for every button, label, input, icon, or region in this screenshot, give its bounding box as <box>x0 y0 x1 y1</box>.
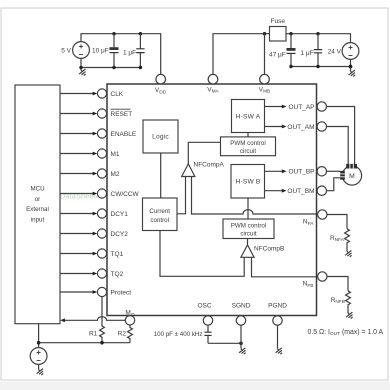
svg-text:PGND: PGND <box>268 302 287 309</box>
comparator NFCompB <box>241 245 254 257</box>
svg-text:circuit: circuit <box>240 148 256 155</box>
pin NFA <box>318 210 327 219</box>
pin TQ2 <box>97 269 106 278</box>
svg-text:PWM control: PWM control <box>231 222 266 229</box>
node junction source bottom <box>79 66 82 69</box>
svg-text:ENABLE: ENABLE <box>111 131 137 138</box>
wire MCU to TQ1 <box>60 253 93 255</box>
wire MCU to RESET <box>60 113 93 115</box>
voltage source 24V <box>342 43 359 60</box>
pin DCY2 <box>97 229 106 238</box>
svg-text:OUT_AP: OUT_AP <box>288 104 314 111</box>
svg-text:10 μF: 10 μF <box>92 47 109 54</box>
wire MCU to Protect <box>60 291 93 293</box>
wire PGND to ground <box>277 325 279 349</box>
capacitor OSC (100pF) <box>204 325 211 343</box>
svg-text:M2: M2 <box>111 171 120 178</box>
svg-text:DCY2: DCY2 <box>111 231 129 238</box>
pin OUT_AM <box>317 122 326 131</box>
wire MO to MCU (with hop) <box>63 317 125 321</box>
svg-text:NFCompA: NFCompA <box>194 161 225 168</box>
svg-text:NFCompB: NFCompB <box>254 245 284 252</box>
svg-text:Protect: Protect <box>111 289 132 296</box>
wire OUT_AP to motor <box>327 107 355 165</box>
svg-text:M: M <box>349 173 355 180</box>
wire NFA to RNFA <box>327 215 347 229</box>
wire MCU to M2 <box>60 173 93 175</box>
resistor RNFB <box>346 291 351 313</box>
pin CLK <box>97 89 106 98</box>
wire H-SW B to PWM B <box>247 198 249 219</box>
svg-text:External: External <box>26 206 49 213</box>
svg-text:CW/CCW: CW/CCW <box>111 191 140 198</box>
fuse F1 <box>270 27 287 42</box>
pin VDD <box>156 74 166 84</box>
node junction SGND <box>239 342 243 346</box>
block H-SW B <box>231 165 265 199</box>
wire MCU to DCY2 <box>60 233 93 235</box>
wire Current control to NFCompA input <box>177 177 186 214</box>
node junction 47uF top <box>289 32 292 35</box>
pin OSC <box>203 316 212 325</box>
wire ground rail bottom-left <box>39 342 130 344</box>
svg-text:control: control <box>150 217 169 224</box>
ground (signal source) <box>35 367 45 377</box>
svg-text:Fuse: Fuse <box>271 18 286 25</box>
comparator NFCompA <box>182 164 195 177</box>
voltage source 5V <box>73 42 90 59</box>
svg-text:M1: M1 <box>111 151 120 158</box>
ground (SGND) <box>238 346 248 356</box>
wire MCU to TQ2 <box>60 273 93 275</box>
wire H-SW A to PWM A <box>247 133 249 137</box>
svg-text:OUT_BM: OUT_BM <box>287 188 314 195</box>
svg-text:24 V: 24 V <box>328 48 342 55</box>
wire NFB to NFCompB input <box>252 257 317 277</box>
node junction source top <box>37 341 41 345</box>
svg-text:CLK: CLK <box>111 91 124 98</box>
wire 5V top rail to VDD <box>81 34 161 75</box>
wire NFB to RNFB <box>327 277 348 291</box>
signal source (MCU supply) <box>30 348 47 365</box>
wire MCU to ENABLE <box>60 133 93 135</box>
node junction 10uF top <box>112 32 115 35</box>
pin RESET <box>97 109 106 118</box>
wire source to ground <box>38 364 40 369</box>
svg-text:DCY1: DCY1 <box>111 211 129 218</box>
resistor R1 <box>100 297 105 343</box>
pin OUT_AP <box>317 102 326 111</box>
wire OUT_BM to motor <box>327 178 341 191</box>
motor winding B (left) <box>340 171 345 180</box>
svg-text:Current: Current <box>149 208 170 215</box>
svg-text:1 μF: 1 μF <box>123 50 136 57</box>
svg-text:OSC: OSC <box>197 302 211 309</box>
wire MCU to DCY1 <box>60 213 93 215</box>
node junction R1 bottom <box>100 341 104 345</box>
svg-text:RESET: RESET <box>111 111 133 118</box>
capacitor 1uF (left) <box>136 34 144 68</box>
wire NFA to NFCompA input (with hop) <box>192 177 317 215</box>
node junction 1uF-right top <box>316 32 319 35</box>
node junction 10uF bottom <box>112 66 115 69</box>
block PWM control circuit B <box>223 219 274 239</box>
svg-text:100 pF ± 400 kHz: 100 pF ± 400 kHz <box>154 331 203 338</box>
svg-text:input: input <box>31 216 45 223</box>
block Current control <box>143 198 178 231</box>
pin CW/CCW <box>97 189 106 198</box>
svg-text:47 μF: 47 μF <box>269 52 286 59</box>
node junction 1uF-right bottom <box>316 65 319 68</box>
svg-text:circuit: circuit <box>240 230 256 237</box>
wire OUT_BP to motor <box>327 170 341 172</box>
wire H-SW A to OUT_AM (arrow) <box>265 126 284 128</box>
capacitor 10uF (polarized) <box>110 34 119 68</box>
node junction 24V source bottom <box>349 65 353 69</box>
pin OUT_BM <box>317 186 326 195</box>
node junction VMB top <box>263 32 266 35</box>
svg-text:R2: R2 <box>118 331 127 338</box>
block PWM control circuit A <box>221 137 276 156</box>
svg-text:TQ1: TQ1 <box>111 251 124 258</box>
wire PWM B to NFCompB <box>247 239 249 245</box>
resistor R2 <box>128 325 133 343</box>
svg-text:1 μF: 1 μF <box>301 50 314 57</box>
svg-text:Logic: Logic <box>152 134 169 141</box>
ground (24V source) <box>347 69 357 79</box>
ground (RNFA) <box>344 249 354 259</box>
wire 5V bottom rail <box>81 59 140 71</box>
wire MCU to CW/CCW <box>60 193 93 195</box>
motor M <box>342 166 361 185</box>
capacitor 1uF (right) <box>314 34 322 67</box>
svg-text:PWM control: PWM control <box>230 140 265 147</box>
node junction 1uF top <box>139 32 142 35</box>
wire OSC cap to SGND <box>208 342 241 344</box>
wire Current control to NFCompB input <box>160 231 244 277</box>
svg-text:SGND: SGND <box>232 302 251 309</box>
ground (RNFB) <box>345 311 355 321</box>
wire 24V bottom rail <box>291 59 351 71</box>
svg-text:H-SW B: H-SW B <box>235 179 260 186</box>
svg-text:or: or <box>35 196 41 203</box>
wire MCU to M1 <box>60 153 93 155</box>
wire 24V top rail from VMA to source <box>213 34 351 75</box>
svg-text:H-SW A: H-SW A <box>236 114 261 121</box>
wire NFCompA output to PWM A <box>188 142 220 164</box>
wire MCU box to signal source <box>38 324 40 348</box>
ground (5V source) <box>78 68 88 78</box>
svg-text:R1: R1 <box>89 331 98 338</box>
wire MCU to CLK <box>60 93 93 95</box>
wire OUT_AM to motor <box>327 127 349 165</box>
pin DCY1 <box>97 209 106 218</box>
node junction 47uF bottom <box>289 65 292 68</box>
svg-text:5 V: 5 V <box>61 47 71 54</box>
wire H-SW B to OUT_BP (arrow) <box>265 170 284 172</box>
block H-SW A <box>232 100 265 133</box>
pin TQ1 <box>97 249 106 258</box>
pin M1 <box>97 149 106 158</box>
pin SGND <box>236 316 245 325</box>
pin OUT_BP <box>317 167 326 176</box>
svg-text:OUT_BP: OUT_BP <box>288 169 314 176</box>
pin NFB <box>318 272 327 281</box>
svg-text:MCU: MCU <box>30 186 44 193</box>
resistor RNFA <box>345 229 350 252</box>
wire VMB drop <box>264 34 266 75</box>
ground (PGND) <box>274 346 284 356</box>
wire Logic to Current control <box>160 153 162 198</box>
bottom band <box>0 382 390 390</box>
wire SGND to ground <box>240 325 242 349</box>
pin MO <box>125 316 134 325</box>
pin Protect <box>97 287 106 296</box>
wire H-SW B to OUT_BM (arrow) <box>265 190 284 192</box>
motor winding A (top) <box>346 164 357 169</box>
pin M2 <box>97 169 106 178</box>
pin ENABLE <box>97 129 106 138</box>
svg-text:OUT_AM: OUT_AM <box>287 124 314 131</box>
pin VMA <box>208 74 218 84</box>
block Logic <box>143 120 178 153</box>
pin PGND <box>273 316 282 325</box>
svg-text:TQ2: TQ2 <box>111 271 124 278</box>
capacitor 47uF (polarized) <box>287 34 296 67</box>
node junction 1uF bottom <box>139 66 142 69</box>
pin VMB <box>260 74 270 84</box>
wire H-SW A to OUT_AP (arrow) <box>265 106 284 108</box>
